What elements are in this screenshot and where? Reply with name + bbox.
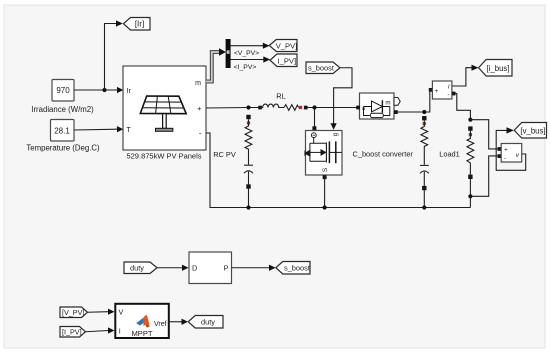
svg-text:Load1: Load1 [439, 150, 460, 159]
svg-text:28.1: 28.1 [54, 127, 70, 136]
svg-text:[v_bus]: [v_bus] [520, 126, 545, 135]
wire bus selector to I_PV goto [231, 59, 264, 61]
svg-text:g: g [333, 133, 339, 136]
PWM block D P [189, 252, 232, 284]
resistor of RL [284, 105, 299, 111]
svg-text:Irradiance (W/m2): Irradiance (W/m2) [31, 105, 94, 114]
svg-text:s_boost: s_boost [284, 264, 310, 273]
svg-text:-: - [504, 155, 506, 162]
svg-text:[V_PV]: [V_PV] [62, 308, 84, 317]
inductor of RL [262, 104, 284, 107]
goto tag [v_bus] [514, 123, 546, 139]
svg-text:MPPT: MPPT [131, 329, 152, 338]
node C branch top [422, 110, 426, 114]
svg-text:<V_PV>: <V_PV> [234, 50, 259, 57]
goto tag I_PV [270, 54, 297, 67]
diode output connector [394, 110, 398, 114]
C branch connector bottom [422, 186, 426, 190]
wire node down to mosfet drain [314, 108, 316, 128]
svg-text:+: + [435, 88, 439, 95]
goto tag V_PV [269, 40, 297, 52]
wire RL to diode block [308, 107, 357, 109]
wire v minus to load bottom [470, 156, 497, 196]
PV panels block [123, 66, 206, 150]
red sample marker C branch [423, 122, 426, 125]
matlab logo [136, 315, 149, 328]
svg-text:<I_PV>: <I_PV> [234, 64, 257, 71]
MPPT block [115, 304, 169, 338]
svg-text:+: + [197, 104, 202, 113]
Load1 connector top [468, 126, 472, 130]
svg-text:P: P [224, 264, 229, 273]
wire diode to node and up to current block [398, 92, 430, 112]
resistor C branch [421, 120, 428, 164]
constant block Temperature 28.1 [51, 120, 75, 142]
svg-text:RL: RL [276, 92, 285, 101]
node on irradiance wire [102, 88, 106, 92]
svg-text:V_PV]: V_PV] [276, 42, 298, 51]
Load1 connector bottom [468, 175, 472, 179]
wire I_PV to MPPT I [86, 331, 109, 332]
solar panel pole and base [163, 114, 167, 129]
wire load top to v plus [470, 120, 497, 149]
wire PV plus to RC node (top rail) [206, 107, 258, 110]
svg-text:529.875kW PV Panels: 529.875kW PV Panels [126, 152, 201, 161]
svg-text:m: m [385, 99, 390, 106]
svg-text:m: m [195, 80, 201, 87]
wire 28.1 to PV T input [74, 128, 118, 131]
diode symbol [364, 100, 391, 117]
svg-text:[Ir]: [Ir] [135, 20, 144, 29]
svg-text:I_PV]: I_PV] [278, 56, 297, 65]
solar panel icon [140, 96, 186, 114]
RC PV branch connector top [246, 115, 250, 119]
RL branch connector [258, 106, 262, 110]
red sample marker Load1 [469, 133, 472, 136]
svg-text:Vref: Vref [154, 321, 167, 328]
svg-text:duty: duty [201, 318, 215, 327]
wire duty to PWM D [157, 267, 183, 269]
node RC PV bottom [246, 205, 250, 209]
svg-text:D: D [192, 264, 197, 273]
wire i output to i_bus tag [452, 68, 472, 86]
svg-text:s_boost: s_boost [308, 64, 334, 73]
node RC PV top [246, 105, 250, 109]
red sample marker RC PV [247, 121, 250, 124]
svg-text:[i_bus]: [i_bus] [487, 64, 510, 73]
C branch connector top [422, 116, 426, 120]
wire PV minus to bottom rail [206, 133, 470, 208]
wire node up to [Ir] goto tag [105, 24, 117, 91]
node load bottom [468, 194, 472, 198]
goto tag s_boost bottom [276, 262, 310, 275]
constant block Irradiance 970 [52, 80, 74, 102]
goto tag duty bottom [188, 316, 223, 329]
wire current block minus to load top node [456, 94, 471, 120]
svg-text:V: V [119, 308, 124, 317]
svg-text:S: S [322, 167, 329, 172]
from tag s_boost top [306, 62, 340, 74]
svg-text:[I_PV]: [I_PV] [62, 328, 82, 337]
wire MPPT to duty goto [169, 321, 182, 323]
svg-text:RC PV: RC PV [213, 150, 236, 159]
resistor Load1 [467, 131, 474, 175]
svg-text:970: 970 [56, 86, 70, 95]
svg-text:-: - [447, 92, 449, 99]
svg-text:-: - [199, 129, 202, 138]
wire 970 to PV Ir input [74, 89, 118, 91]
mosfet symbol [305, 138, 342, 164]
mosfet source connector and wire to rail [323, 175, 327, 179]
mosfet block (boost switch) [306, 131, 343, 176]
svg-text:I: I [119, 326, 121, 335]
node mosfet source on rail [323, 205, 327, 209]
from tag duty [124, 262, 157, 274]
from tag [V_PV] [60, 307, 88, 318]
svg-text:Ir: Ir [127, 88, 132, 95]
bus selector [226, 39, 231, 68]
capacitor RC PV [244, 164, 253, 166]
capacitor C branch [420, 164, 429, 166]
diode block [360, 93, 395, 119]
wire P to s_boost goto [232, 267, 270, 269]
RC PV branch connector bottom [246, 184, 250, 188]
svg-text:duty: duty [130, 264, 144, 273]
goto tag [Ir] [124, 18, 151, 31]
from tag [I_PV] [60, 327, 86, 338]
wire V_PV to MPPT V [88, 311, 109, 314]
current measurement block [429, 88, 433, 92]
voltage measurement block [498, 147, 502, 151]
wire v output loop to v_bus tag [496, 130, 526, 170]
node load top [468, 118, 472, 122]
bus wire m to bus selector [206, 52, 220, 82]
svg-text:T: T [127, 127, 132, 134]
red sample marker RL [299, 106, 302, 109]
resistor RC PV [245, 119, 252, 164]
goto tag [i_bus] [479, 60, 512, 77]
node C branch bottom [422, 205, 426, 209]
wire bus selector to V_PV goto [231, 45, 263, 47]
svg-text:Temperature (Deg.C): Temperature (Deg.C) [26, 143, 100, 152]
node above mosfet [312, 105, 316, 109]
wire s_boost to mosfet gate [334, 68, 352, 124]
svg-text:C_boost converter: C_boost converter [353, 150, 414, 159]
svg-text:+: + [504, 147, 508, 154]
RL right connector [304, 106, 308, 110]
